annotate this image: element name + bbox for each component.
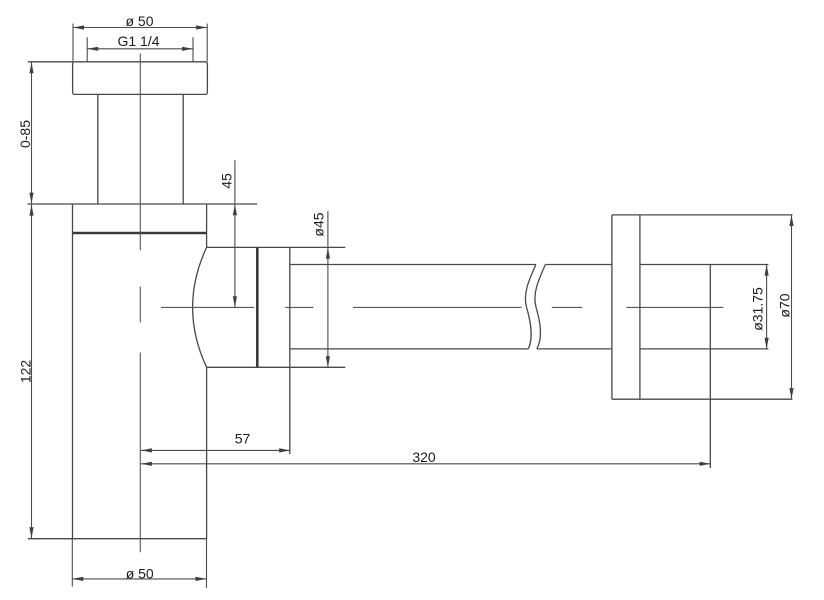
arrow 45 up [233,204,237,215]
svg-text:122: 122 [18,360,34,384]
dim 0-85: dimension line [31,62,33,203]
dim G1 1/4: dimension line [87,48,193,50]
dim ⌀45: dimension line [327,211,329,367]
trap body top line [28,203,258,205]
horizontal centerline segment 4 [552,306,582,308]
arrow 0-85 up [29,62,33,73]
wall flange right edge [639,215,641,399]
arrow ⌀70 down [789,388,793,399]
body outlet intersection arc [193,247,207,367]
svg-text:0-85: 0-85 [17,120,33,148]
outlet nut bottom line [207,366,346,368]
dim G1 1/4: left tick [86,37,88,61]
svg-text:ø 50: ø 50 [125,13,153,29]
trap body left edge [72,204,74,539]
arrow ⌀45 up [326,248,330,259]
horizontal centerline segment 1 [161,306,254,308]
tail pipe right edge [182,94,184,204]
trap body right edge lower [206,367,208,538]
wall flange bottom line [612,398,793,400]
svg-text:ø31.75: ø31.75 [749,287,765,331]
dim ⌀50 bottom: right extension line [206,539,208,588]
arrow ⌀31.75 up [765,265,769,276]
arrow G1 1/4 left [87,47,98,51]
arrow 320 left [141,462,152,466]
dim 45: dimension line [234,160,236,307]
arrow 57 right [279,448,290,452]
horizontal pipe top right segment [640,264,769,266]
horizontal centerline segment 5 [626,306,723,308]
pipe end edge with extension down [709,265,711,469]
dim ⌀70: dimension line [791,215,793,399]
dim 57: dimension line [141,449,290,451]
svg-text:45: 45 [219,173,235,189]
arrow 0-85 down [29,193,33,204]
trap body right edge upper [206,204,208,247]
arrow ⌀50 top left [73,25,84,29]
wire: flange top extension to left [28,61,73,63]
arrow ⌀70 up [789,215,793,226]
arrow 122 down [29,527,33,538]
svg-text:320: 320 [412,449,436,465]
svg-text:ø45: ø45 [310,212,326,236]
dim ⌀50 top: left extension line [72,24,74,62]
wall flange top line [612,214,793,216]
horizontal pipe bottom right segment [640,348,769,350]
dim 122: dimension line [31,205,33,539]
trap body bottom line [28,538,207,540]
tail pipe left edge [97,94,99,204]
svg-text:ø 50: ø 50 [126,565,154,581]
horizontal pipe top middle segment [545,264,612,266]
svg-text:57: 57 [235,430,251,446]
outlet nut top line [207,246,346,248]
arrow ⌀45 down [326,356,330,367]
trap body flange thick line [73,232,207,235]
dim ⌀50 bottom: left extension line [71,539,73,587]
dim ⌀50 bottom: dimension line [72,578,206,580]
arrow G1 1/4 right [182,47,193,51]
wall flange left edge [611,215,613,399]
arrow 122 up [29,205,33,216]
centerlines [140,54,723,553]
dim ⌀50 top: dimension line [73,27,207,29]
dim G1 1/4: right tick [192,37,194,61]
arrow ⌀50 bottom right [196,577,207,581]
vertical centerline segment 2 [139,287,141,323]
horizontal pipe bottom middle segment [537,348,612,350]
svg-text:G1 1/4: G1 1/4 [117,33,159,49]
outlet nut right edge with extension down [289,247,291,454]
vertical centerline segment 3 [139,353,141,553]
arrow 45 down [233,296,237,307]
dim 320: dimension line [141,463,711,465]
vertical centerline segment 1 [139,54,141,251]
arrow 320 right [700,462,711,466]
horizontal centerline segment 3 [353,306,522,308]
svg-text:ø70: ø70 [776,293,792,317]
outlet nut thick left edge [256,247,259,367]
horizontal pipe top left segment [290,264,536,266]
pipe break curve left [525,265,536,349]
top flange of tailpiece [73,62,208,95]
arrow ⌀31.75 down [765,338,769,349]
arrow 57 left [141,448,152,452]
pipe break curve right [535,265,546,349]
horizontal pipe bottom left segment [290,348,529,350]
horizontal centerline segment 2 [285,306,313,308]
dim ⌀31.75: dimension line [766,265,768,349]
arrow ⌀50 bottom left [72,577,83,581]
dim ⌀50 top: right extension line [206,24,208,62]
arrow ⌀50 top right [196,25,207,29]
